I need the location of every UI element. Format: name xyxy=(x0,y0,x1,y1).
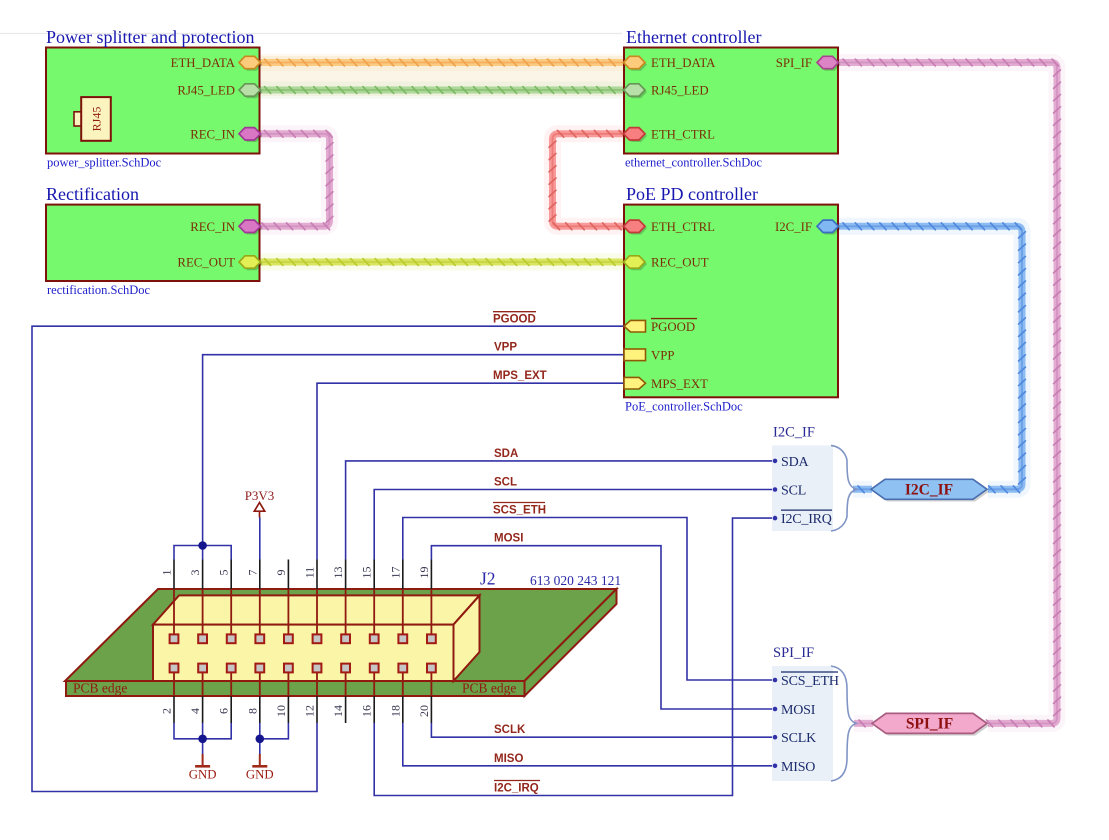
svg-text:7: 7 xyxy=(245,570,259,576)
port RJ45_LED on ethernet controller xyxy=(626,86,648,98)
connector J2 body top face xyxy=(153,595,480,624)
signal harness SPI_IF xyxy=(772,666,833,781)
port REC_IN on power splitter xyxy=(241,130,263,142)
bus REC_IN band xyxy=(260,134,330,227)
svg-text:VPP: VPP xyxy=(651,349,674,363)
bus I2C_IF band xyxy=(838,226,1022,489)
port VPP on PoE controller xyxy=(624,349,646,361)
svg-text:SCS_ETH: SCS_ETH xyxy=(781,674,839,689)
svg-text:J2: J2 xyxy=(480,569,496,589)
port MPS_EXT on PoE controller xyxy=(624,377,646,389)
svg-text:ethernet_controller.SchDoc: ethernet_controller.SchDoc xyxy=(625,156,763,170)
svg-text:12: 12 xyxy=(303,705,317,717)
svg-text:SCL: SCL xyxy=(781,484,806,499)
svg-text:REC_IN: REC_IN xyxy=(190,127,235,141)
signal harness I2C_IF xyxy=(772,445,833,531)
svg-text:Ethernet controller: Ethernet controller xyxy=(626,27,761,47)
wire GND net: pin 8 to ground symbol xyxy=(259,739,261,754)
bus I2C_IF stub band xyxy=(853,486,872,493)
harness entry SCLK xyxy=(773,735,778,740)
svg-text:SCL: SCL xyxy=(494,477,517,489)
svg-text:PCB edge: PCB edge xyxy=(73,681,127,696)
connector J2 PCB right side face xyxy=(525,589,617,696)
port ETH_CTRL on ethernet controller xyxy=(626,130,648,142)
svg-text:613 020 243 121: 613 020 243 121 xyxy=(530,573,621,588)
port ETH_CTRL on PoE controller xyxy=(626,222,648,234)
bus I2C_IF stub hatch xyxy=(858,486,864,493)
svg-text:13: 13 xyxy=(331,567,345,579)
svg-text:SPI_IF: SPI_IF xyxy=(906,716,953,733)
wire PGOOD net: PoE port to pin 12 xyxy=(32,326,624,791)
svg-text:20: 20 xyxy=(417,705,431,717)
svg-text:REC_OUT: REC_OUT xyxy=(651,256,709,270)
svg-text:8: 8 xyxy=(245,708,259,714)
svg-text:SDA: SDA xyxy=(781,455,809,470)
svg-text:I2C_IF: I2C_IF xyxy=(773,424,815,440)
junction dot GND at pin 4 column xyxy=(198,735,207,744)
svg-text:I2C_IRQ: I2C_IRQ xyxy=(494,783,539,795)
wire SDA net: harness to pin 13 xyxy=(346,461,772,560)
svg-text:9: 9 xyxy=(274,570,288,576)
harness entry I2C_IRQ xyxy=(773,516,778,521)
svg-text:MISO: MISO xyxy=(494,753,523,765)
connector J2 PCB top face xyxy=(65,589,617,681)
bus I2C_IF hatch xyxy=(843,223,1025,493)
junction dot VPP at pin 3 column xyxy=(198,541,207,550)
svg-text:rectification.SchDoc: rectification.SchDoc xyxy=(47,283,151,297)
port ETH_DATA on power splitter xyxy=(241,58,263,70)
bus REC_IN halo xyxy=(260,134,330,227)
svg-text:15: 15 xyxy=(360,567,374,579)
bus ETH_DATA hatch xyxy=(265,59,616,66)
wire VPP net: pins 1-3-5 link xyxy=(174,546,231,560)
port ETH_DATA on ethernet controller xyxy=(626,58,648,70)
svg-text:11: 11 xyxy=(303,567,317,579)
connector pin stubs (black) xyxy=(174,560,431,724)
port SPI_IF on ethernet controller xyxy=(819,58,841,70)
svg-text:MOSI: MOSI xyxy=(494,533,523,545)
harness entry SCS_ETH xyxy=(773,678,778,683)
bus RJ45_LED band xyxy=(260,87,625,94)
connector J2 body right face xyxy=(454,595,480,681)
bus REC_OUT halo xyxy=(260,254,625,271)
harness entry MISO xyxy=(773,764,778,769)
svg-text:SCLK: SCLK xyxy=(494,724,526,736)
svg-text:GND: GND xyxy=(246,768,274,782)
ground symbol GND (pin 4) xyxy=(202,754,204,766)
svg-text:5: 5 xyxy=(217,570,231,576)
bus RJ45_LED hatch xyxy=(265,87,616,94)
svg-text:SCLK: SCLK xyxy=(781,731,816,746)
svg-text:MPS_EXT: MPS_EXT xyxy=(493,370,547,382)
svg-text:2: 2 xyxy=(160,708,174,714)
bus SPI_IF hatch xyxy=(843,59,1060,727)
port REC_IN on rectification xyxy=(241,222,263,234)
svg-text:1: 1 xyxy=(160,570,174,576)
svg-text:SCS_ETH: SCS_ETH xyxy=(493,505,546,517)
svg-text:16: 16 xyxy=(360,705,374,717)
svg-text:SDA: SDA xyxy=(494,448,518,460)
sheet symbol rectification xyxy=(46,205,260,281)
ground symbol GND (pin 8) xyxy=(259,754,261,766)
svg-text:10: 10 xyxy=(274,705,288,717)
svg-text:Rectification: Rectification xyxy=(46,184,139,204)
connector J2 PCB front edge band xyxy=(66,681,525,696)
wire SCS_ETH net: harness to pin 17 xyxy=(403,518,772,681)
svg-text:PGOOD: PGOOD xyxy=(493,314,536,326)
svg-text:17: 17 xyxy=(388,567,402,579)
wire VPP net: junction to pin 3 xyxy=(202,546,204,560)
svg-text:GND: GND xyxy=(189,768,217,782)
sheet symbol power splitter xyxy=(46,48,260,154)
svg-text:RJ45: RJ45 xyxy=(90,107,104,132)
connector J2 body front face xyxy=(153,625,454,681)
sheet symbol PoE controller xyxy=(624,205,838,398)
bus REC_OUT hatch xyxy=(265,259,616,266)
svg-text:SPI_IF: SPI_IF xyxy=(773,645,814,661)
bus RJ45_LED halo xyxy=(260,82,625,99)
bus ETH_DATA band xyxy=(260,59,625,66)
wire MPS_EXT net: PoE port to pin 11 xyxy=(317,383,624,559)
svg-text:PGOOD: PGOOD xyxy=(651,320,695,334)
svg-text:PoE PD controller: PoE PD controller xyxy=(626,184,758,204)
harness entry SCL xyxy=(773,487,778,492)
bus SPI_IF stub halo xyxy=(854,715,873,732)
junction dot GND at pin 8 column xyxy=(255,735,264,744)
svg-text:REC_OUT: REC_OUT xyxy=(177,256,235,270)
wire GND net: pin 4 to ground symbol xyxy=(202,723,204,754)
bus ETH_CTRL halo xyxy=(553,134,625,227)
svg-text:I2C_IF: I2C_IF xyxy=(775,220,812,234)
bus ETH_CTRL hatch xyxy=(549,130,625,229)
wire P3V3 net: power symbol to pin 7 xyxy=(259,518,261,560)
port REC_OUT on rectification xyxy=(241,258,263,270)
bus SPI_IF stub band xyxy=(854,720,873,727)
svg-text:14: 14 xyxy=(331,705,345,717)
harness connector label SPI_IF xyxy=(874,716,989,736)
bus SPI_IF band xyxy=(838,63,1057,724)
wire VPP net: PoE port down to junction xyxy=(203,355,624,546)
port RJ45_LED on power splitter xyxy=(241,86,263,98)
port PGOOD on PoE controller xyxy=(624,320,646,332)
wire GND net: pins 2-4-6 link xyxy=(174,723,231,739)
svg-text:I2C_IF: I2C_IF xyxy=(905,482,953,499)
svg-text:PCB edge: PCB edge xyxy=(462,681,516,696)
bus I2C_IF halo xyxy=(838,226,1022,489)
bus SPI_IF stub hatch xyxy=(859,720,865,727)
svg-text:PoE_controller.SchDoc: PoE_controller.SchDoc xyxy=(625,399,743,413)
harness entry SDA xyxy=(773,459,778,464)
svg-text:MISO: MISO xyxy=(781,760,815,775)
svg-text:P3V3: P3V3 xyxy=(245,488,275,503)
wire MOSI net: harness to pin 19 xyxy=(431,546,772,709)
bus ETH_DATA halo xyxy=(260,54,625,71)
connector pads xyxy=(170,634,179,643)
bus SPI_IF halo xyxy=(838,63,1057,724)
faint sheet boundary line at top xyxy=(0,33,622,35)
svg-text:19: 19 xyxy=(417,567,431,579)
svg-text:ETH_DATA: ETH_DATA xyxy=(171,56,236,70)
svg-text:ETH_CTRL: ETH_CTRL xyxy=(651,127,715,141)
RJ45 connector part inside power splitter xyxy=(74,112,82,126)
svg-text:I2C_IRQ: I2C_IRQ xyxy=(781,512,832,527)
sheet symbol ethernet controller xyxy=(624,48,838,154)
bus ETH_CTRL band xyxy=(553,134,625,227)
svg-text:SPI_IF: SPI_IF xyxy=(776,56,812,70)
svg-text:RJ45_LED: RJ45_LED xyxy=(651,84,709,98)
svg-text:power_splitter.SchDoc: power_splitter.SchDoc xyxy=(47,156,162,170)
port REC_OUT on PoE controller xyxy=(626,258,648,270)
harness glow between ETH_DATA and RJ45_LED buses xyxy=(252,56,630,96)
svg-text:6: 6 xyxy=(217,708,231,714)
svg-text:MOSI: MOSI xyxy=(781,703,816,718)
wire SCLK net: harness to pin 20 xyxy=(431,723,772,737)
wire I2C_IRQ net: harness to pin 16 xyxy=(374,518,772,795)
svg-text:RJ45_LED: RJ45_LED xyxy=(177,84,235,98)
bus REC_IN hatch xyxy=(262,130,333,229)
port I2C_IF on PoE controller xyxy=(819,222,841,234)
svg-text:3: 3 xyxy=(188,570,202,576)
bus REC_OUT band xyxy=(260,259,625,266)
svg-text:ETH_CTRL: ETH_CTRL xyxy=(651,220,715,234)
svg-text:4: 4 xyxy=(188,708,202,714)
svg-text:VPP: VPP xyxy=(494,342,517,354)
connector pin lines (maroon) xyxy=(174,589,431,696)
svg-text:REC_IN: REC_IN xyxy=(190,220,235,234)
svg-text:Power splitter and protection: Power splitter and protection xyxy=(46,27,254,47)
svg-text:ETH_DATA: ETH_DATA xyxy=(651,56,716,70)
svg-text:18: 18 xyxy=(388,705,402,717)
harness entry MOSI xyxy=(773,707,778,712)
bus I2C_IF stub halo xyxy=(853,481,872,498)
wire MISO net: harness to pin 18 xyxy=(403,723,772,766)
harness connector label I2C_IF xyxy=(873,482,989,502)
svg-text:MPS_EXT: MPS_EXT xyxy=(651,377,708,391)
wire SCL net: harness to pin 15 xyxy=(374,490,772,560)
wire GND net: pins 8-10 link xyxy=(260,723,289,739)
